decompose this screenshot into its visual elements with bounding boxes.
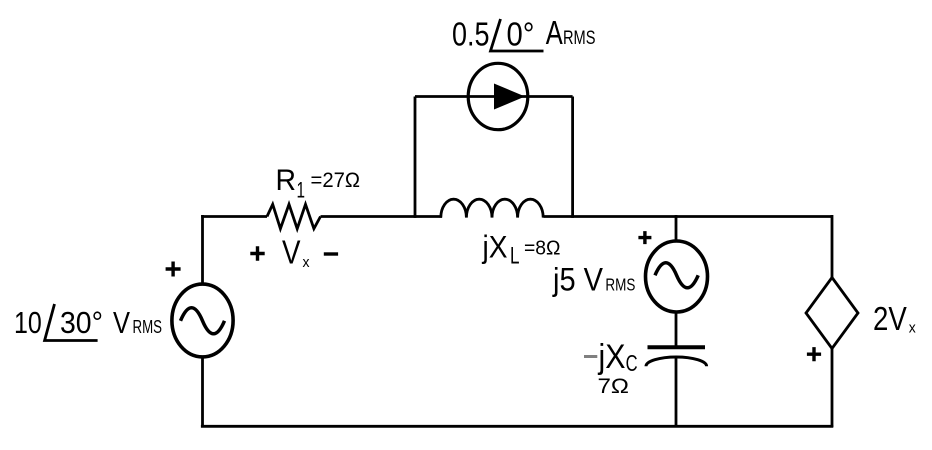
inductor jXL bbox=[441, 199, 543, 217]
svg-text:j5 V: j5 V bbox=[552, 261, 604, 297]
svg-text:30°: 30° bbox=[60, 305, 103, 340]
resistor R1 bbox=[267, 204, 321, 228]
label plus j5 bbox=[638, 231, 651, 244]
label plus Vx bbox=[250, 246, 264, 260]
svg-text:x: x bbox=[909, 320, 916, 337]
label plus 2Vx bbox=[807, 347, 821, 361]
wire current-source loop left bbox=[414, 97, 417, 218]
svg-text:V: V bbox=[113, 305, 130, 340]
wire main right segment bbox=[544, 215, 834, 218]
wire right branch upper bbox=[831, 215, 834, 279]
capacitor C top plate bbox=[648, 345, 706, 349]
label plus Vs bbox=[166, 262, 181, 277]
svg-text:L: L bbox=[510, 243, 520, 270]
voltage source j5 sine bbox=[655, 263, 698, 288]
svg-text:jX: jX bbox=[482, 229, 508, 265]
svg-text:7Ω: 7Ω bbox=[598, 375, 630, 398]
wire current-source loop top bbox=[415, 95, 573, 98]
capacitor C bottom plate bbox=[646, 357, 707, 366]
wire middle branch mid bbox=[675, 312, 678, 348]
wire right branch lower bbox=[831, 348, 834, 428]
angle symbol top bbox=[491, 19, 544, 51]
dependent source 2Vx diamond bbox=[806, 278, 858, 349]
current source I1 arrow bbox=[494, 84, 525, 110]
svg-text:x: x bbox=[303, 254, 310, 271]
svg-text:10: 10 bbox=[14, 305, 42, 340]
wire left branch lower bbox=[201, 356, 204, 428]
wire middle branch upper bbox=[675, 215, 678, 243]
wire current-source loop right bbox=[571, 97, 574, 218]
svg-text:0.5: 0.5 bbox=[452, 16, 490, 53]
svg-text:=8Ω: =8Ω bbox=[524, 237, 561, 259]
wire middle branch lower bbox=[675, 357, 678, 428]
voltage source Vs circle bbox=[172, 284, 233, 357]
svg-text:A: A bbox=[546, 14, 563, 51]
svg-text:C: C bbox=[626, 350, 638, 376]
svg-text:RMS: RMS bbox=[133, 317, 163, 337]
current source I1 circle bbox=[468, 63, 528, 129]
voltage source Vs sine bbox=[181, 308, 225, 334]
label minus Vx bbox=[324, 252, 338, 255]
angle symbol left bbox=[45, 304, 98, 341]
svg-text:0°: 0° bbox=[507, 16, 535, 53]
svg-text:V: V bbox=[282, 234, 301, 271]
svg-text:jX: jX bbox=[598, 338, 626, 376]
svg-text:1: 1 bbox=[297, 178, 306, 203]
svg-text:RMS: RMS bbox=[563, 28, 596, 49]
wire left branch upper bbox=[201, 215, 204, 286]
svg-text:=27Ω: =27Ω bbox=[311, 168, 361, 192]
wire main left segment bbox=[201, 215, 267, 218]
wire main middle segment bbox=[321, 215, 443, 218]
svg-text:2V: 2V bbox=[873, 300, 907, 337]
svg-text:R: R bbox=[276, 164, 297, 197]
voltage source j5 circle bbox=[646, 241, 708, 312]
label minus jXC gray dash bbox=[584, 355, 597, 358]
svg-text:RMS: RMS bbox=[605, 274, 635, 294]
wire bottom bbox=[201, 425, 833, 428]
